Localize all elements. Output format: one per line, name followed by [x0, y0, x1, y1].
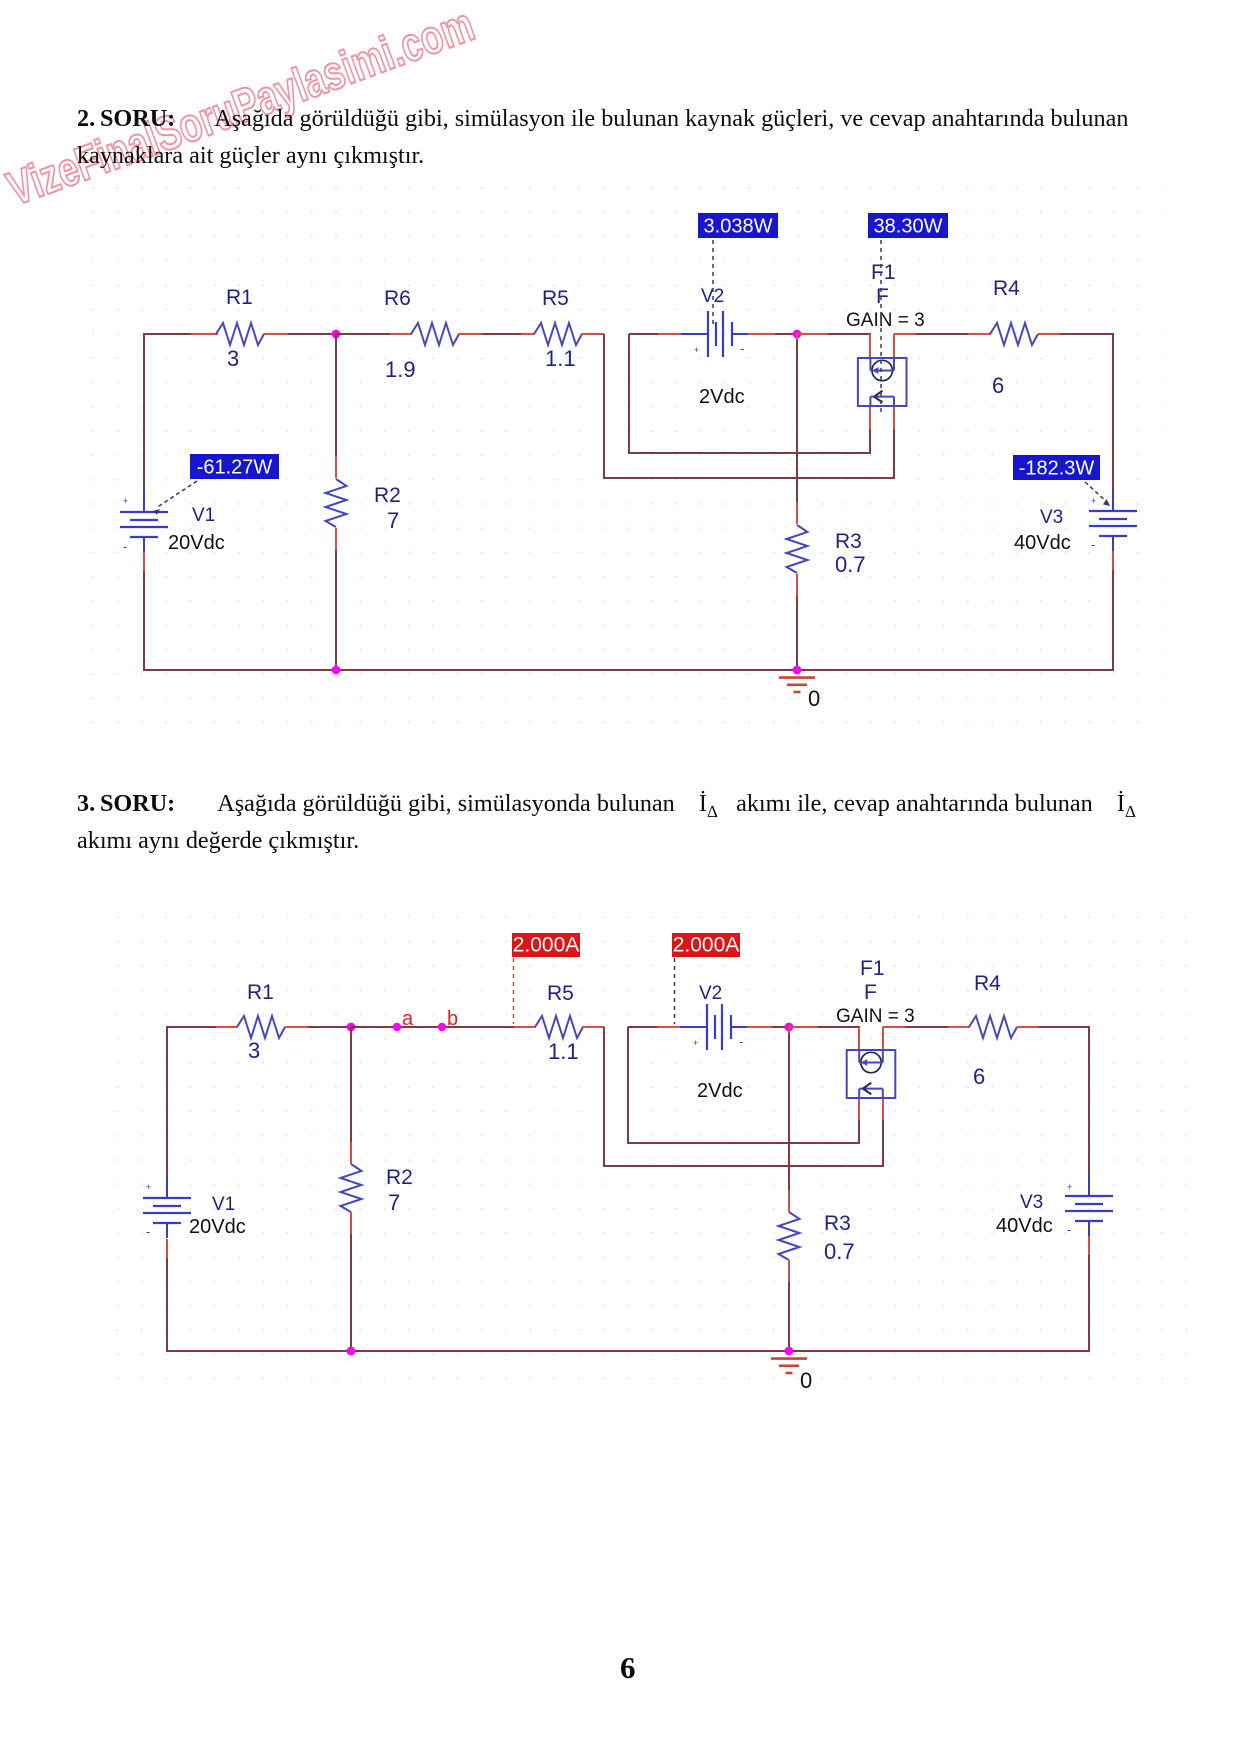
node b	[438, 1023, 446, 1031]
svg-text:-: -	[1067, 1222, 1071, 1237]
svg-text:R3: R3	[835, 530, 862, 553]
svg-text:R1: R1	[226, 286, 253, 309]
svg-text:+: +	[694, 345, 699, 355]
svg-text:F1: F1	[860, 957, 885, 980]
wire node to R6	[336, 333, 390, 335]
wire V1 to bottom c2	[166, 1239, 168, 1258]
wire left vertical	[143, 333, 145, 490]
svg-text:2.000A: 2.000A	[673, 934, 740, 957]
svg-text:V2: V2	[699, 983, 722, 1004]
svg-text:R2: R2	[386, 1166, 413, 1189]
svg-text:R3: R3	[824, 1212, 851, 1235]
battery V2 c2	[706, 1004, 708, 1050]
wire top-left	[190, 333, 218, 335]
svg-text:20Vdc: 20Vdc	[189, 1216, 246, 1238]
dependent source F1 c2	[847, 1050, 896, 1098]
svg-text:20Vdc: 20Vdc	[168, 532, 225, 554]
power label -61.27W on V1	[190, 454, 279, 479]
svg-text:a: a	[402, 1008, 414, 1030]
svg-text:R4: R4	[974, 972, 1001, 995]
resistor R3	[787, 525, 808, 573]
svg-text:2Vdc: 2Vdc	[697, 1080, 743, 1102]
wire bottom c2	[167, 1350, 1089, 1352]
svg-text:+: +	[693, 1038, 698, 1048]
node a	[393, 1023, 401, 1031]
resistor R1 c2	[237, 1016, 285, 1038]
svg-text:+: +	[123, 496, 128, 506]
svg-text:1.1: 1.1	[545, 346, 576, 371]
current label 2.000A on R5	[512, 933, 580, 957]
svg-text:2Vdc: 2Vdc	[699, 386, 745, 408]
ground 0	[779, 676, 815, 679]
wire right vertical c2	[1088, 1026, 1090, 1175]
current label 2.000A on V2	[672, 933, 740, 957]
node junction V2/F1/R3 c2	[785, 1023, 794, 1032]
svg-text:V3: V3	[1040, 507, 1063, 528]
paragraph 3. SORU	[77, 790, 1136, 822]
resistor R2	[326, 479, 347, 527]
wire to R5 c2	[514, 1026, 536, 1028]
svg-text:V1: V1	[212, 1194, 235, 1215]
power label 38.30W on F1	[868, 213, 948, 238]
node junction R1/R6/R2	[332, 330, 341, 339]
page number 6	[620, 1650, 636, 1686]
wire R4 to right edge c2	[1017, 1026, 1039, 1028]
wire R1 to node 2	[285, 1026, 308, 1028]
dependent source F1	[858, 358, 907, 406]
ground 0 c2	[771, 1357, 807, 1360]
wire V2 to node	[748, 333, 775, 335]
battery V3	[1089, 510, 1137, 512]
svg-text:V1: V1	[192, 505, 215, 526]
svg-text:+: +	[146, 1182, 151, 1192]
svg-text:38.30W: 38.30W	[874, 216, 943, 238]
svg-text:6: 6	[992, 373, 1004, 398]
svg-text:-61.27W: -61.27W	[197, 457, 273, 479]
grid dots circuit 1	[85, 183, 1162, 746]
svg-text:0: 0	[800, 1368, 812, 1393]
wire R2 branch c2	[350, 1027, 352, 1142]
svg-text:-: -	[1091, 537, 1095, 552]
watermark VizeFinalSoruPaylasimi.com	[0, 0, 560, 300]
resistor R3 c2	[779, 1212, 800, 1260]
svg-text:0.7: 0.7	[835, 552, 866, 577]
node junction R2 bottom	[332, 666, 341, 675]
svg-text:+: +	[1091, 496, 1096, 506]
svg-text:6: 6	[973, 1064, 985, 1089]
svg-text:40Vdc: 40Vdc	[1014, 532, 1071, 554]
svg-text:3: 3	[248, 1038, 260, 1063]
svg-text:R4: R4	[993, 277, 1020, 300]
svg-text:V3: V3	[1020, 1192, 1043, 1213]
svg-text:-: -	[739, 1034, 743, 1049]
node junction ground c2	[785, 1347, 794, 1356]
wire left vertical 2	[166, 1026, 168, 1177]
wire V1 top	[143, 489, 145, 491]
wire inner loop V2 left to F1 control	[629, 334, 870, 453]
wire top-left 2	[167, 1026, 216, 1028]
battery V3 c2	[1065, 1195, 1113, 1197]
svg-text:7: 7	[388, 1190, 400, 1215]
svg-text:-: -	[123, 539, 127, 554]
wire outer loop R5 to F1 output	[604, 334, 894, 478]
wire R5 to corner	[581, 333, 604, 335]
wire node a b	[351, 1026, 514, 1028]
svg-text:R5: R5	[547, 982, 574, 1005]
svg-text:+: +	[1067, 1182, 1072, 1192]
svg-text:F: F	[876, 285, 889, 308]
resistor R2 c2	[341, 1164, 362, 1212]
svg-text:0: 0	[808, 686, 820, 711]
svg-text:3: 3	[227, 346, 239, 371]
wire inner loop c2	[628, 1027, 859, 1143]
battery V1 c2	[143, 1197, 191, 1199]
svg-text:F1: F1	[871, 261, 896, 284]
svg-text:0.7: 0.7	[824, 1239, 855, 1264]
svg-text:F: F	[864, 981, 877, 1004]
wire V2 left stub c2	[628, 1026, 657, 1028]
battery V1	[120, 511, 168, 513]
svg-text:R6: R6	[384, 287, 411, 310]
grid dots circuit 2	[100, 900, 1195, 1380]
svg-text:2.000A: 2.000A	[513, 934, 580, 957]
wire F1 top-right pin to R4	[893, 334, 895, 358]
svg-text:1.1: 1.1	[548, 1039, 579, 1064]
svg-text:40Vdc: 40Vdc	[996, 1215, 1053, 1237]
svg-text:-: -	[146, 1224, 150, 1239]
wire node to F1 c2	[789, 1026, 818, 1028]
svg-text:R5: R5	[542, 287, 569, 310]
wire right vertical	[1112, 333, 1114, 490]
svg-text:GAIN = 3: GAIN = 3	[836, 1006, 915, 1027]
resistor R1	[216, 323, 264, 345]
wire V3 to bottom c2	[1088, 1236, 1090, 1255]
svg-text:3.038W: 3.038W	[704, 216, 773, 238]
wire R1 to node	[264, 333, 288, 335]
svg-text:b: b	[447, 1008, 458, 1030]
battery V2	[707, 311, 709, 357]
resistor R6	[411, 323, 459, 345]
svg-text:R2: R2	[374, 484, 401, 507]
wire R6 to R5	[458, 333, 482, 335]
wire R2 branch	[335, 334, 337, 456]
wire V2 left stub	[629, 333, 658, 335]
wire R4 to right edge	[1038, 333, 1060, 335]
node junction R2 bottom c2	[347, 1347, 356, 1356]
svg-text:7: 7	[387, 508, 399, 533]
svg-text:GAIN = 3: GAIN = 3	[846, 310, 925, 331]
resistor R4	[990, 323, 1038, 345]
svg-text:-182.3W: -182.3W	[1019, 458, 1095, 480]
power label -182.3W on V3	[1013, 455, 1100, 480]
wire V1 to bottom	[143, 552, 145, 571]
wire outer loop c2	[604, 1027, 883, 1166]
wire R3 branch	[796, 334, 798, 340]
resistor R4 c2	[969, 1016, 1017, 1038]
wire R3 branch c2	[788, 1027, 790, 1033]
svg-text:-: -	[740, 341, 744, 356]
node junction R1/R2 c2	[347, 1023, 356, 1032]
node junction V2/F1/R3	[793, 330, 802, 339]
wire R5 right c2	[582, 1026, 604, 1028]
wire F1 to R4 c2	[882, 1027, 884, 1050]
wire node to F1 top-left pin	[797, 333, 828, 335]
wire V3 to bottom	[1112, 551, 1114, 570]
paragraph 2. SORU	[77, 105, 1128, 133]
node junction ground	[793, 666, 802, 675]
resistor R5	[534, 323, 582, 345]
power label 3.038W on V2	[698, 213, 778, 238]
svg-text:1.9: 1.9	[385, 357, 416, 382]
wire V2 to node c2	[747, 1026, 772, 1028]
resistor R5 c2	[535, 1016, 583, 1038]
svg-text:R1: R1	[247, 981, 274, 1004]
wire bottom	[144, 669, 1113, 671]
